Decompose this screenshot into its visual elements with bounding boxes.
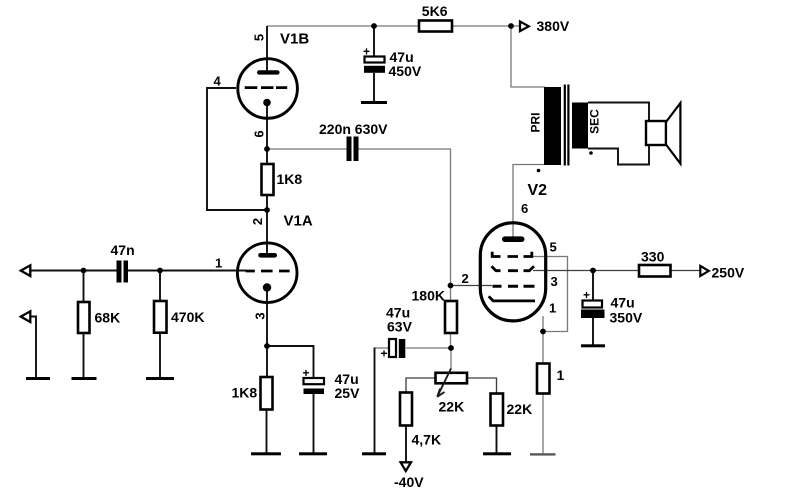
svg-text:V2: V2 [528, 182, 548, 199]
svg-text:250V: 250V [712, 265, 745, 281]
wire 1 ohm to ground [542, 394, 544, 454]
ground below 47u 25V [299, 452, 327, 455]
wire input 2 to ground [22, 317, 36, 379]
svg-text:47u: 47u [611, 295, 635, 311]
resistor 1 (V2 cathode) [537, 364, 550, 394]
resistor 22K trimmer body [436, 373, 468, 384]
arrow 380V [520, 22, 529, 32]
junction node 180K / V2 grid [448, 283, 454, 289]
wire pot right to 22K [466, 378, 497, 394]
ground below 68K [72, 377, 97, 380]
wire top rail from V1B anode to 380V arrow [267, 25, 519, 27]
wire 47n to V1A grid pin 1 [128, 270, 247, 272]
svg-text:-40V: -40V [394, 474, 424, 490]
svg-text:+: + [363, 45, 370, 59]
wire 47u 450V leads [373, 26, 375, 102]
capacitor 47n [117, 261, 122, 283]
ground below input 2 [26, 377, 50, 380]
svg-text:5K6: 5K6 [422, 3, 448, 19]
junction node 180K bottom [448, 345, 454, 351]
svg-text:1: 1 [557, 367, 565, 383]
wire 470K leads [159, 271, 161, 379]
wire input to 47n [22, 270, 117, 272]
V1B cathode dot [263, 99, 271, 107]
V1A cathode dot [263, 283, 271, 291]
svg-text:47n: 47n [111, 242, 135, 258]
svg-text:2: 2 [462, 271, 469, 286]
svg-text:V1A: V1A [284, 213, 313, 230]
svg-text:1K8: 1K8 [232, 385, 258, 401]
wire cathode node to 47u 25V [267, 346, 314, 378]
ground below 47u 350V [581, 344, 605, 347]
wire V2 cathode to 1 ohm resistor [542, 316, 544, 364]
capacitor 47u 350V [583, 301, 603, 308]
transformer primary winding [544, 87, 561, 165]
ground below 1K8 [251, 452, 281, 455]
arrow -40V [401, 462, 411, 471]
svg-text:4,7K: 4,7K [412, 432, 442, 448]
trimmer wiper arrow [437, 369, 451, 397]
junction node top rail at 47u 450V [371, 23, 377, 29]
junction node screen / 330 [590, 268, 596, 274]
secondary phase dot [589, 151, 593, 155]
wire 180K leads [450, 286, 452, 349]
svg-text:450V: 450V [389, 63, 422, 79]
resistor 470K [154, 301, 167, 333]
resistor 5K6 [419, 21, 452, 32]
V1B grid dashes [245, 86, 288, 89]
tube V1A envelope [237, 243, 297, 303]
wire secondary bottom to speaker [588, 145, 649, 165]
speaker horn [666, 103, 680, 164]
wire 47u 25V to ground [313, 394, 315, 453]
junction node 380V branch [508, 23, 514, 29]
wire pot left to 4,7K [406, 378, 436, 393]
V1A grid dashes [246, 270, 290, 273]
resistor 180K [445, 301, 457, 333]
svg-text:V1B: V1B [280, 31, 309, 48]
primary phase dot [537, 169, 541, 173]
ground below 470K [146, 377, 174, 380]
wire V2 grid pin 2 [451, 285, 493, 287]
svg-text:PRI: PRI [528, 112, 542, 132]
svg-text:5: 5 [550, 240, 557, 255]
junction node V1B pin6 / 220n [264, 146, 270, 152]
input arrow 1 [21, 265, 31, 276]
svg-text:6: 6 [521, 201, 528, 216]
wire secondary top to speaker [588, 103, 649, 122]
svg-text:470K: 470K [171, 309, 204, 325]
arrow 250V [700, 266, 709, 276]
svg-text:+: + [583, 288, 590, 302]
wire from transformer primary bottom to V2 anode pin 6 [513, 165, 545, 238]
V1A anode plate [258, 253, 277, 258]
svg-text:180K: 180K [412, 288, 445, 304]
svg-text:68K: 68K [95, 310, 121, 326]
svg-text:330: 330 [641, 249, 665, 265]
junction node feedback [264, 207, 270, 213]
wire 220n to 180K node [359, 149, 451, 286]
wire 1K8 to V1A anode [266, 195, 268, 254]
wire suppressor pin 5 link to cathode [533, 257, 568, 332]
svg-text:1K8: 1K8 [277, 171, 303, 187]
speaker box [646, 121, 666, 145]
svg-text:4: 4 [214, 74, 222, 89]
resistor 330 [639, 265, 671, 277]
svg-text:1: 1 [215, 256, 222, 271]
capacitor 47u 450V [365, 57, 385, 63]
transformer secondary winding [572, 103, 588, 149]
svg-text:22K: 22K [439, 399, 465, 415]
wire screen pin 3 to 330 [533, 270, 639, 272]
junction node 47n / 470K [157, 268, 163, 274]
svg-text:6: 6 [252, 130, 267, 137]
ground below 47u 63V [362, 452, 386, 455]
transformer core [565, 85, 569, 166]
V2 anode plate [502, 236, 525, 242]
svg-text:3: 3 [551, 274, 558, 289]
svg-text:380V: 380V [537, 18, 570, 34]
svg-text:2: 2 [250, 218, 265, 225]
wire feedback pin 4 [207, 88, 267, 210]
ground below 47u 450V [361, 101, 387, 104]
tube V1B envelope [238, 59, 298, 119]
svg-text:3: 3 [253, 312, 268, 319]
svg-text:1: 1 [549, 301, 556, 316]
resistor 22K (right) [491, 394, 504, 426]
V2 suppressor grid [492, 252, 532, 257]
wire from 380V node down to transformer primary top [511, 26, 545, 87]
svg-text:5: 5 [252, 34, 267, 41]
wire 330 to 250V arrow [671, 270, 701, 272]
V1B anode plate [257, 70, 280, 74]
wire 63V cap drop to ground [374, 348, 376, 454]
V2 cathode [489, 296, 535, 301]
wire 47u 350V leads [592, 271, 594, 346]
wire V1A cathode pin 3 down [266, 291, 268, 377]
input arrow 2 [21, 311, 31, 322]
wire 47u 63V left lead to ground [375, 347, 390, 349]
wire node pin6 to 220n [267, 148, 347, 150]
svg-text:25V: 25V [335, 385, 361, 401]
svg-text:220n 630V: 220n 630V [319, 121, 388, 137]
wire V1B pin 5 [266, 26, 268, 71]
junction node V1A cathode [264, 343, 270, 349]
resistor 1K8 (V1A cathode) [261, 377, 273, 410]
wire 1K8 bottom to ground [266, 410, 268, 454]
ground below 1 ohm [530, 453, 556, 455]
svg-text:350V: 350V [610, 310, 643, 326]
wire V1B pin 6 down to 1K8 [266, 105, 268, 164]
capacitor 47u 63V [389, 339, 396, 357]
junction node V2 cathode [540, 329, 546, 335]
resistor 1K8 (V1B cathode load) [262, 164, 274, 195]
wire 47u 63V right lead [406, 347, 451, 349]
tube V2 envelope [480, 223, 545, 321]
resistor 68K [78, 302, 90, 333]
svg-text:22K: 22K [507, 401, 533, 417]
resistor 4,7K [400, 393, 412, 426]
V2 control grid [493, 285, 535, 288]
svg-text:+: + [380, 347, 387, 361]
ground below 22K [483, 452, 511, 455]
V2 screen grid [492, 266, 535, 271]
wire 4,7K to -40V arrow [405, 426, 407, 468]
wire 22K to ground [496, 426, 498, 454]
wire 68K leads [83, 271, 85, 379]
capacitor 220n 630V [347, 137, 352, 162]
svg-text:SEC: SEC [588, 109, 602, 134]
wire pot top lead [450, 348, 452, 369]
svg-text:63V: 63V [387, 319, 413, 335]
capacitor 47u 25V [304, 378, 325, 384]
junction node input / 68K [81, 268, 87, 274]
svg-text:+: + [302, 366, 309, 380]
